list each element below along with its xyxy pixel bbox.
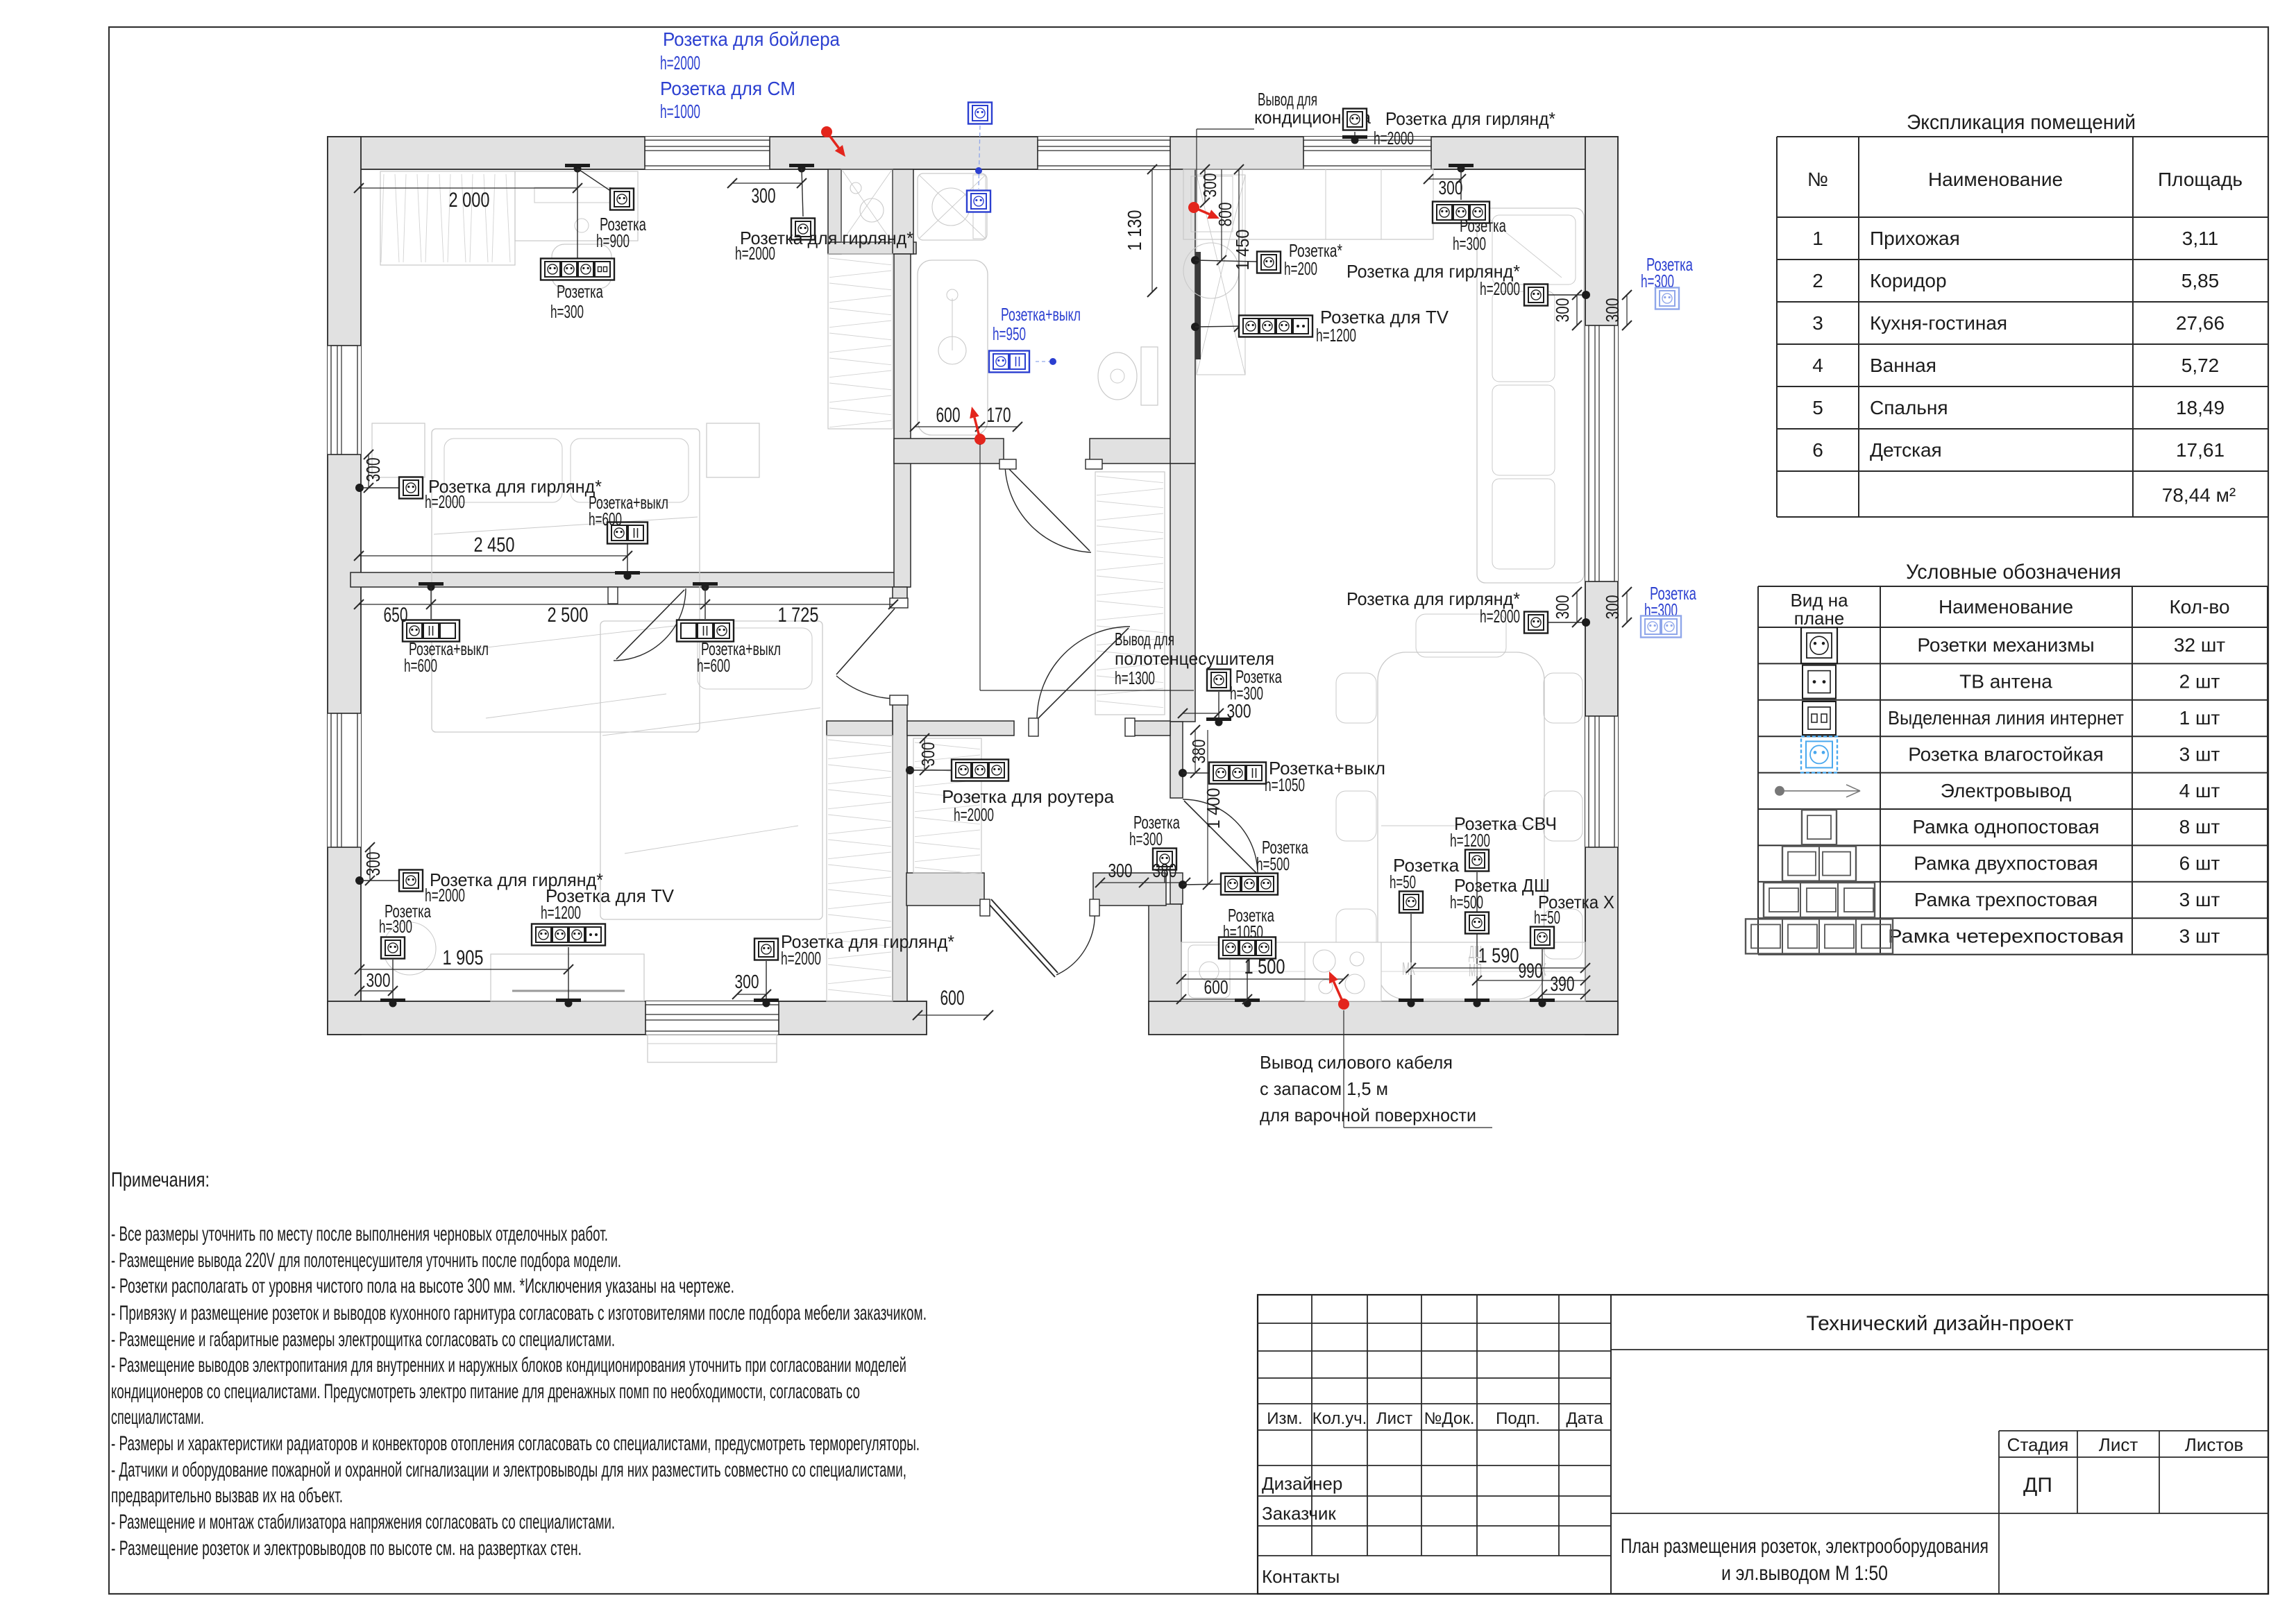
svg-text:h=1200: h=1200 (1316, 325, 1356, 346)
legend icon electrical output (1775, 786, 1784, 796)
svg-text:Рамка однопостовая: Рамка однопостовая (1912, 816, 2099, 838)
wall bedroom/bathroom spine upper (893, 169, 913, 254)
svg-text:Лист: Лист (1376, 1409, 1412, 1428)
legend icon frame 4 (1746, 919, 1893, 953)
svg-text:1 шт: 1 шт (2179, 707, 2220, 729)
svg-text:Электровывод: Электровывод (1941, 780, 2072, 801)
svg-text:300: 300 (362, 458, 384, 482)
svg-text:3 шт: 3 шт (2179, 925, 2220, 946)
socket garland right wall upper (1524, 284, 1548, 306)
wall children east lower (893, 704, 907, 1001)
svg-text:78,44 м²: 78,44 м² (2162, 484, 2236, 506)
svg-text:990: 990 (1519, 960, 1543, 983)
furniture kitchen bottom counter (1181, 942, 1585, 1001)
window sill outside children window (648, 1035, 777, 1062)
svg-text:600: 600 (940, 987, 965, 1010)
dimension 300 kitchen near table (1183, 713, 1219, 714)
svg-text:Коридор: Коридор (1870, 270, 1947, 291)
svg-text:h=300: h=300 (1453, 233, 1486, 254)
svg-text:300: 300 (1552, 595, 1573, 620)
dimension 1 400 kitchen west (1207, 730, 1208, 885)
svg-text:8 шт: 8 шт (2179, 816, 2220, 838)
window left wall lower (328, 713, 361, 847)
svg-text:1 450: 1 450 (1232, 230, 1253, 271)
svg-text:Розетка: Розетка (557, 281, 603, 302)
svg-text:и эл.выводом М 1:50: и эл.выводом М 1:50 (1721, 1562, 1888, 1585)
svg-text:3: 3 (1812, 312, 1823, 334)
door bedroom (from corridor) (614, 588, 686, 661)
dimension 2 450 bedroom (359, 555, 627, 556)
wall corridor/prihozhaya divider right (1130, 721, 1170, 736)
svg-text:h=1200: h=1200 (541, 902, 581, 923)
svg-text:Листов: Листов (2185, 1434, 2243, 1455)
furniture sofa (1477, 208, 1584, 583)
fixture shower cell (841, 169, 893, 242)
socket kitchen top right 3-gang h=300 (1449, 164, 1474, 167)
svg-text:h=2000: h=2000 (660, 52, 700, 74)
svg-text:600: 600 (936, 404, 961, 427)
legend icon internet (1803, 702, 1836, 735)
dimension 1 130 kitchen cabinets (1151, 169, 1153, 292)
wall exterior left (328, 137, 361, 1035)
electrical output air conditioner bedroom (red arrow) (821, 126, 832, 137)
svg-text:6 шт: 6 шт (2179, 853, 2220, 874)
svg-text:Кол.уч.: Кол.уч. (1312, 1409, 1367, 1428)
socket bedroom 4-gang Розетка h=300 (565, 164, 590, 167)
svg-text:Заказчик: Заказчик (1262, 1503, 1336, 1524)
svg-text:Изм.: Изм. (1267, 1409, 1302, 1428)
svg-text:2 450: 2 450 (474, 534, 515, 556)
svg-text:специалистами.: специалистами. (111, 1406, 204, 1429)
wall prihozhaya south right (1093, 873, 1166, 906)
svg-text:300: 300 (1108, 860, 1133, 881)
svg-text:17,61: 17,61 (2176, 439, 2225, 461)
wall exterior top (328, 137, 1618, 169)
svg-text:Рамка четерехпостовая: Рамка четерехпостовая (1888, 925, 2124, 946)
leader hob power cable (1343, 1010, 1344, 1128)
dimension 300 kitchen top (1428, 178, 1461, 180)
svg-text:h=500: h=500 (1450, 892, 1483, 912)
svg-text:300: 300 (918, 742, 938, 767)
svg-text:Кол-во: Кол-во (2169, 596, 2229, 618)
svg-text:3 шт: 3 шт (2179, 889, 2220, 910)
svg-text:800: 800 (1215, 203, 1235, 227)
fixture washing machine (918, 173, 987, 240)
socket children garland left wall (355, 876, 364, 885)
furniture bedroom nightstand right (707, 423, 759, 477)
svg-text:1 130: 1 130 (1124, 210, 1145, 251)
svg-text:2 500: 2 500 (548, 604, 589, 627)
wall boiler niche left (828, 169, 841, 254)
wall corridor/prihozhaya divider left stub (827, 721, 893, 736)
svg-text:5: 5 (1812, 397, 1823, 418)
svg-text:h=1050: h=1050 (1265, 774, 1305, 795)
svg-text:Технический дизайн-проект: Технический дизайн-проект (1807, 1312, 2074, 1335)
door bathroom (1005, 465, 1091, 552)
socket children combo left h=600 (419, 582, 444, 586)
svg-text:300: 300 (1552, 298, 1573, 323)
svg-text:Ванная: Ванная (1870, 355, 1936, 376)
door kitchen (from prihozhaya) (1183, 799, 1258, 874)
dimension 300 children bottom (360, 990, 393, 992)
svg-text:- Размещение розеток и электро: - Размещение розеток и электровыводов по… (111, 1537, 582, 1560)
svg-text:380: 380 (1153, 860, 1177, 881)
svg-text:h=2000: h=2000 (425, 491, 465, 512)
svg-text:650: 650 (384, 604, 408, 627)
socket children garland bottom right (754, 939, 778, 960)
furniture children chair circle (383, 922, 436, 975)
svg-text:Вывод силового кабеля: Вывод силового кабеля (1260, 1052, 1453, 1073)
svg-text:5,72: 5,72 (2181, 355, 2220, 376)
electrical output air conditioner kitchen (red arrow) (1188, 202, 1199, 213)
socket garland right wall lower (1524, 612, 1548, 634)
table legend grid (1758, 586, 2268, 587)
furniture kitchen top cabinets (1183, 169, 1433, 239)
svg-text:предварительно вызвав их на об: предварительно вызвав их на объект. (111, 1484, 343, 1507)
svg-text:1 725: 1 725 (778, 604, 819, 627)
window top wall 3 (1303, 137, 1431, 169)
svg-text:300: 300 (362, 852, 384, 876)
svg-text:300: 300 (1602, 595, 1623, 620)
legend icon frame 2 (1782, 847, 1856, 881)
svg-text:h=1200: h=1200 (1450, 830, 1490, 851)
dimension 1 590 kitchen right (1411, 967, 1585, 969)
svg-text:32 шт: 32 шт (2174, 634, 2225, 656)
svg-text:h=1300: h=1300 (1115, 668, 1155, 688)
svg-text:Экспликация помещений: Экспликация помещений (1907, 111, 2136, 134)
svg-text:h=50: h=50 (1534, 907, 1560, 928)
svg-text:Лист: Лист (2099, 1434, 2138, 1455)
svg-text:Наименование: Наименование (1928, 169, 2063, 190)
socket kitchen combo h=1050 3-gang (1179, 769, 1187, 777)
electrical output towel dryer (red arrow) (974, 434, 986, 445)
svg-text:h=300: h=300 (379, 916, 412, 937)
svg-text:h=600: h=600 (697, 655, 730, 676)
wall bathroom-kitchen east (1170, 169, 1195, 464)
dimension 300 children bottom right (737, 994, 766, 995)
svg-text:- Размещение и монтаж стабилиз: - Размещение и монтаж стабилизатора напр… (111, 1511, 615, 1533)
svg-text:4 шт: 4 шт (2179, 780, 2220, 801)
svg-text:- Розетки располагать от уровн: - Розетки располагать от уровня чистого … (111, 1275, 734, 1298)
svg-text:Розетка+выкл: Розетка+выкл (1001, 304, 1081, 325)
svg-text:h=600: h=600 (589, 509, 622, 529)
socket bedroom Розетка h=900 (577, 169, 614, 193)
leader towel dryer (979, 444, 981, 690)
dimension 300 bedroom top right (732, 182, 802, 184)
svg-text:1 400: 1 400 (1203, 788, 1224, 829)
dimension 300 bedroom left wall (368, 454, 369, 488)
socket router 3-gang h=2000 (906, 766, 914, 774)
svg-text:МК: МК (1402, 958, 1415, 979)
title block right area (1611, 1349, 2268, 1350)
svg-text:2: 2 (1812, 270, 1823, 291)
wall bedroom/children divider (351, 572, 910, 587)
svg-text:Спальня: Спальня (1870, 397, 1948, 418)
door entrance double (988, 903, 1055, 977)
svg-text:для варочной поверхности: для варочной поверхности (1260, 1105, 1476, 1125)
svg-text:- Размеры и характеристики рад: - Размеры и характеристики радиаторов и … (111, 1432, 920, 1455)
svg-text:h=900: h=900 (596, 230, 630, 251)
svg-text:Подп.: Подп. (1496, 1409, 1540, 1428)
svg-text:плане: плане (1794, 608, 1845, 629)
svg-text:1 500: 1 500 (1244, 955, 1285, 978)
legend icon frame 3 (1764, 883, 1875, 917)
svg-text:h=500: h=500 (1256, 853, 1290, 874)
dimension 300 380 prihozhaya (1100, 882, 1185, 883)
svg-text:Прихожая: Прихожая (1870, 228, 1960, 249)
svg-text:27,66: 27,66 (2176, 312, 2225, 334)
svg-text:h=2000: h=2000 (954, 804, 994, 825)
svg-text:h=300: h=300 (1129, 829, 1163, 849)
window children bottom wall (645, 1001, 779, 1035)
svg-text:h=1000: h=1000 (660, 101, 700, 122)
svg-text:План размещения розеток, элект: План размещения розеток, электрооборудов… (1621, 1535, 1989, 1558)
svg-text:Контакты: Контакты (1262, 1566, 1340, 1587)
svg-text:Детская: Детская (1870, 439, 1942, 461)
svg-text:4: 4 (1812, 355, 1823, 376)
svg-text:2 шт: 2 шт (2179, 671, 2220, 692)
svg-text:300: 300 (735, 971, 759, 992)
dimension 600 kitchen counter (1181, 999, 1247, 1000)
svg-text:h=2000: h=2000 (1480, 278, 1520, 299)
wall bathroom south right (1090, 439, 1180, 464)
title block grid (1258, 1295, 2268, 1594)
svg-text:Выделенная линия интернет: Выделенная линия интернет (1888, 707, 2124, 729)
svg-text:№Док.: №Док. (1424, 1409, 1475, 1428)
svg-text:Дата: Дата (1566, 1409, 1603, 1428)
svg-text:3 шт: 3 шт (2179, 743, 2220, 765)
svg-text:Площадь: Площадь (2158, 169, 2243, 190)
furniture children wardrobe hatched (827, 736, 893, 1001)
furniture corridor closet hatched (1095, 472, 1165, 715)
dimension 300 inner lower (1576, 592, 1578, 622)
wall exterior bottom-right (1149, 1001, 1618, 1035)
svg-text:Розетка влагостойкая: Розетка влагостойкая (1908, 743, 2104, 765)
wall prihozhaya south left (906, 873, 984, 906)
dimension 650 / 2 500 / 1 725 children (359, 604, 893, 605)
furniture bedroom bed (432, 429, 700, 732)
svg-text:300: 300 (1602, 298, 1623, 323)
window top wall 1 (645, 137, 770, 169)
svg-text:300: 300 (1227, 700, 1251, 722)
svg-text:300: 300 (366, 969, 391, 991)
svg-text:- Размещение и габаритные разм: - Размещение и габаритные размеры электр… (111, 1328, 615, 1351)
svg-text:380: 380 (1188, 740, 1209, 764)
svg-text:1: 1 (1812, 228, 1823, 249)
dimension 990 kitchen right (1477, 980, 1585, 981)
svg-text:Примечания:: Примечания: (111, 1169, 210, 1191)
wall bathroom south left (894, 439, 1004, 464)
furniture dining table (1378, 652, 1544, 999)
svg-text:Стадия: Стадия (2007, 1434, 2069, 1455)
socket bedroom garland left wall (355, 484, 364, 492)
svg-text:1 590: 1 590 (1478, 944, 1519, 967)
furniture bedroom chair (552, 244, 611, 289)
dimension 300 router (924, 738, 925, 770)
svg-text:с запасом 1,5 м: с запасом 1,5 м (1260, 1078, 1388, 1099)
dimension 600 entrance (918, 1014, 988, 1016)
furniture children tv console (491, 954, 644, 1001)
window top wall 2 (1038, 137, 1170, 169)
socket boiler blue (968, 103, 992, 124)
svg-text:Рамка трехпостовая: Рамка трехпостовая (1914, 889, 2097, 910)
furniture bedroom wardrobe (380, 171, 515, 265)
socket washing machine blue (967, 191, 990, 212)
socket bedroom garland top right (789, 164, 814, 167)
svg-text:170: 170 (987, 404, 1011, 427)
dimension 300 800 1450 kitchen west (1204, 169, 1206, 203)
svg-text:ДП: ДП (2023, 1474, 2052, 1497)
svg-text:h=2000: h=2000 (1480, 606, 1520, 627)
svg-text:18,49: 18,49 (2176, 397, 2225, 418)
dimension 300 inner upper (1576, 295, 1578, 325)
svg-text:3,11: 3,11 (2182, 228, 2218, 249)
fixture toilet (1141, 347, 1158, 405)
dimension 380 kitchen west (1195, 730, 1196, 773)
svg-text:Кухня-гостиная: Кухня-гостиная (1870, 312, 2007, 334)
svg-text:h=2000: h=2000 (1374, 128, 1414, 148)
svg-text:h=200: h=200 (1284, 258, 1317, 279)
svg-text:1 905: 1 905 (443, 946, 484, 969)
furniture kitchen tall cabinet with TV (1197, 175, 1245, 375)
wall corridor/prihozhaya divider mid (907, 721, 1014, 736)
wall bedroom-bathroom spine (894, 254, 911, 587)
fixture kitchen sink (1188, 945, 1230, 998)
wall kitchen west upper (1170, 722, 1183, 798)
svg-text:- Размещение вывода 220V для п: - Размещение вывода 220V для полотенцесу… (111, 1249, 621, 1272)
furniture bedroom desk (515, 171, 638, 241)
dimension 1 905 children (360, 969, 568, 970)
door children (from corridor) (836, 676, 895, 699)
fixture bath tub (918, 260, 988, 435)
svg-text:300: 300 (752, 185, 776, 207)
furniture bedroom wardrobe right hatched (828, 254, 893, 429)
legend icon tv (1803, 665, 1836, 699)
wall boiler niche bottom (828, 242, 916, 254)
window left wall upper (328, 346, 361, 454)
furniture kitchen armchair circle (1183, 243, 1239, 298)
wall exterior bottom-left (328, 1001, 927, 1035)
electrical output hob (red arrow) (1338, 999, 1349, 1010)
svg-text:300: 300 (1439, 177, 1463, 198)
svg-text:300: 300 (1199, 173, 1220, 198)
svg-text:h=600: h=600 (404, 655, 437, 676)
dimension 300 children left wall (369, 847, 371, 881)
door corridor-prihozhaya (1037, 627, 1130, 720)
svg-text:h=300: h=300 (550, 301, 584, 322)
svg-text:6: 6 (1812, 439, 1823, 461)
socket bedroom switch combo h=600 (607, 522, 648, 544)
svg-text:кондиционеров со специалистами: кондиционеров со специалистами. Предусмо… (111, 1380, 860, 1403)
dimension 2 000 bedroom (359, 187, 577, 189)
svg-text:h=2000: h=2000 (735, 243, 775, 264)
wall kitchen west lower thick (1149, 904, 1181, 1001)
window right wall upper (1585, 325, 1618, 581)
svg-text:- Привязку и размещение розето: - Привязку и размещение розеток и выводо… (111, 1302, 927, 1325)
svg-text:Вывод для: Вывод для (1115, 629, 1174, 649)
svg-text:- Датчики и оборудование пожар: - Датчики и оборудование пожарной и охра… (111, 1459, 906, 1481)
svg-text:Розетка для гирлянд*: Розетка для гирлянд* (1385, 108, 1555, 129)
socket kitchen Розетка* h=200 (1191, 256, 1199, 264)
svg-text:Дизайнер: Дизайнер (1262, 1473, 1342, 1494)
svg-text:2 000: 2 000 (449, 189, 490, 212)
socket kitchen near table h=300 (1207, 670, 1231, 691)
svg-text:Рамка двухпостовая: Рамка двухпостовая (1914, 853, 2098, 874)
furniture children bed (600, 621, 822, 919)
svg-text:Наименование: Наименование (1939, 596, 2073, 618)
furniture prihozhaya closet hatched (913, 738, 981, 873)
socket kitchen TV 4-gang (1191, 323, 1199, 331)
furniture bedroom nightstand left (372, 423, 425, 477)
wall exterior right (1585, 137, 1618, 1035)
socket kitchen garland top (above wall) (1343, 109, 1367, 130)
svg-text:h=50: h=50 (1390, 872, 1416, 892)
dimension 390 kitchen right (1542, 994, 1585, 995)
svg-text:h=950: h=950 (993, 323, 1026, 344)
svg-text:Розетка для бойлера: Розетка для бойлера (663, 28, 840, 50)
wall children east upper post (893, 587, 907, 606)
legend icon wet socket blue (1801, 736, 1837, 772)
svg-text:Розетки механизмы: Розетки механизмы (1917, 634, 2094, 656)
dimension 300 outer lower (1626, 592, 1628, 622)
dimension 300 outer upper blue-side (1626, 295, 1628, 325)
dimension 600 170 bathroom (915, 426, 1018, 427)
svg-text:Условные обозначения: Условные обозначения (1906, 561, 2121, 584)
legend icon socket (1801, 627, 1837, 663)
svg-text:- Размещение выводов электропи: - Размещение выводов электропитания для … (111, 1354, 906, 1377)
svg-text:№: № (1807, 169, 1828, 190)
svg-text:ТВ антена: ТВ антена (1959, 671, 2052, 692)
table explication grid (1777, 136, 2268, 137)
fixture hob (1305, 942, 1381, 1001)
svg-text:Розетка для СМ: Розетка для СМ (660, 78, 795, 99)
socket children combo right h=600 (693, 582, 718, 586)
svg-text:390: 390 (1551, 973, 1575, 996)
svg-text:5,85: 5,85 (2181, 270, 2220, 291)
wall corridor east / kitchen west upper (1170, 464, 1195, 722)
window right wall lower (1585, 716, 1618, 847)
svg-text:- Все размеры уточнить по мест: - Все размеры уточнить по месту после вы… (111, 1223, 608, 1246)
svg-text:h=2000: h=2000 (781, 948, 821, 969)
legend icon frame 1 (1802, 810, 1837, 844)
dimension 1 500 kitchen counter (1181, 978, 1344, 980)
wall kitchen west mid below door (1170, 873, 1183, 904)
